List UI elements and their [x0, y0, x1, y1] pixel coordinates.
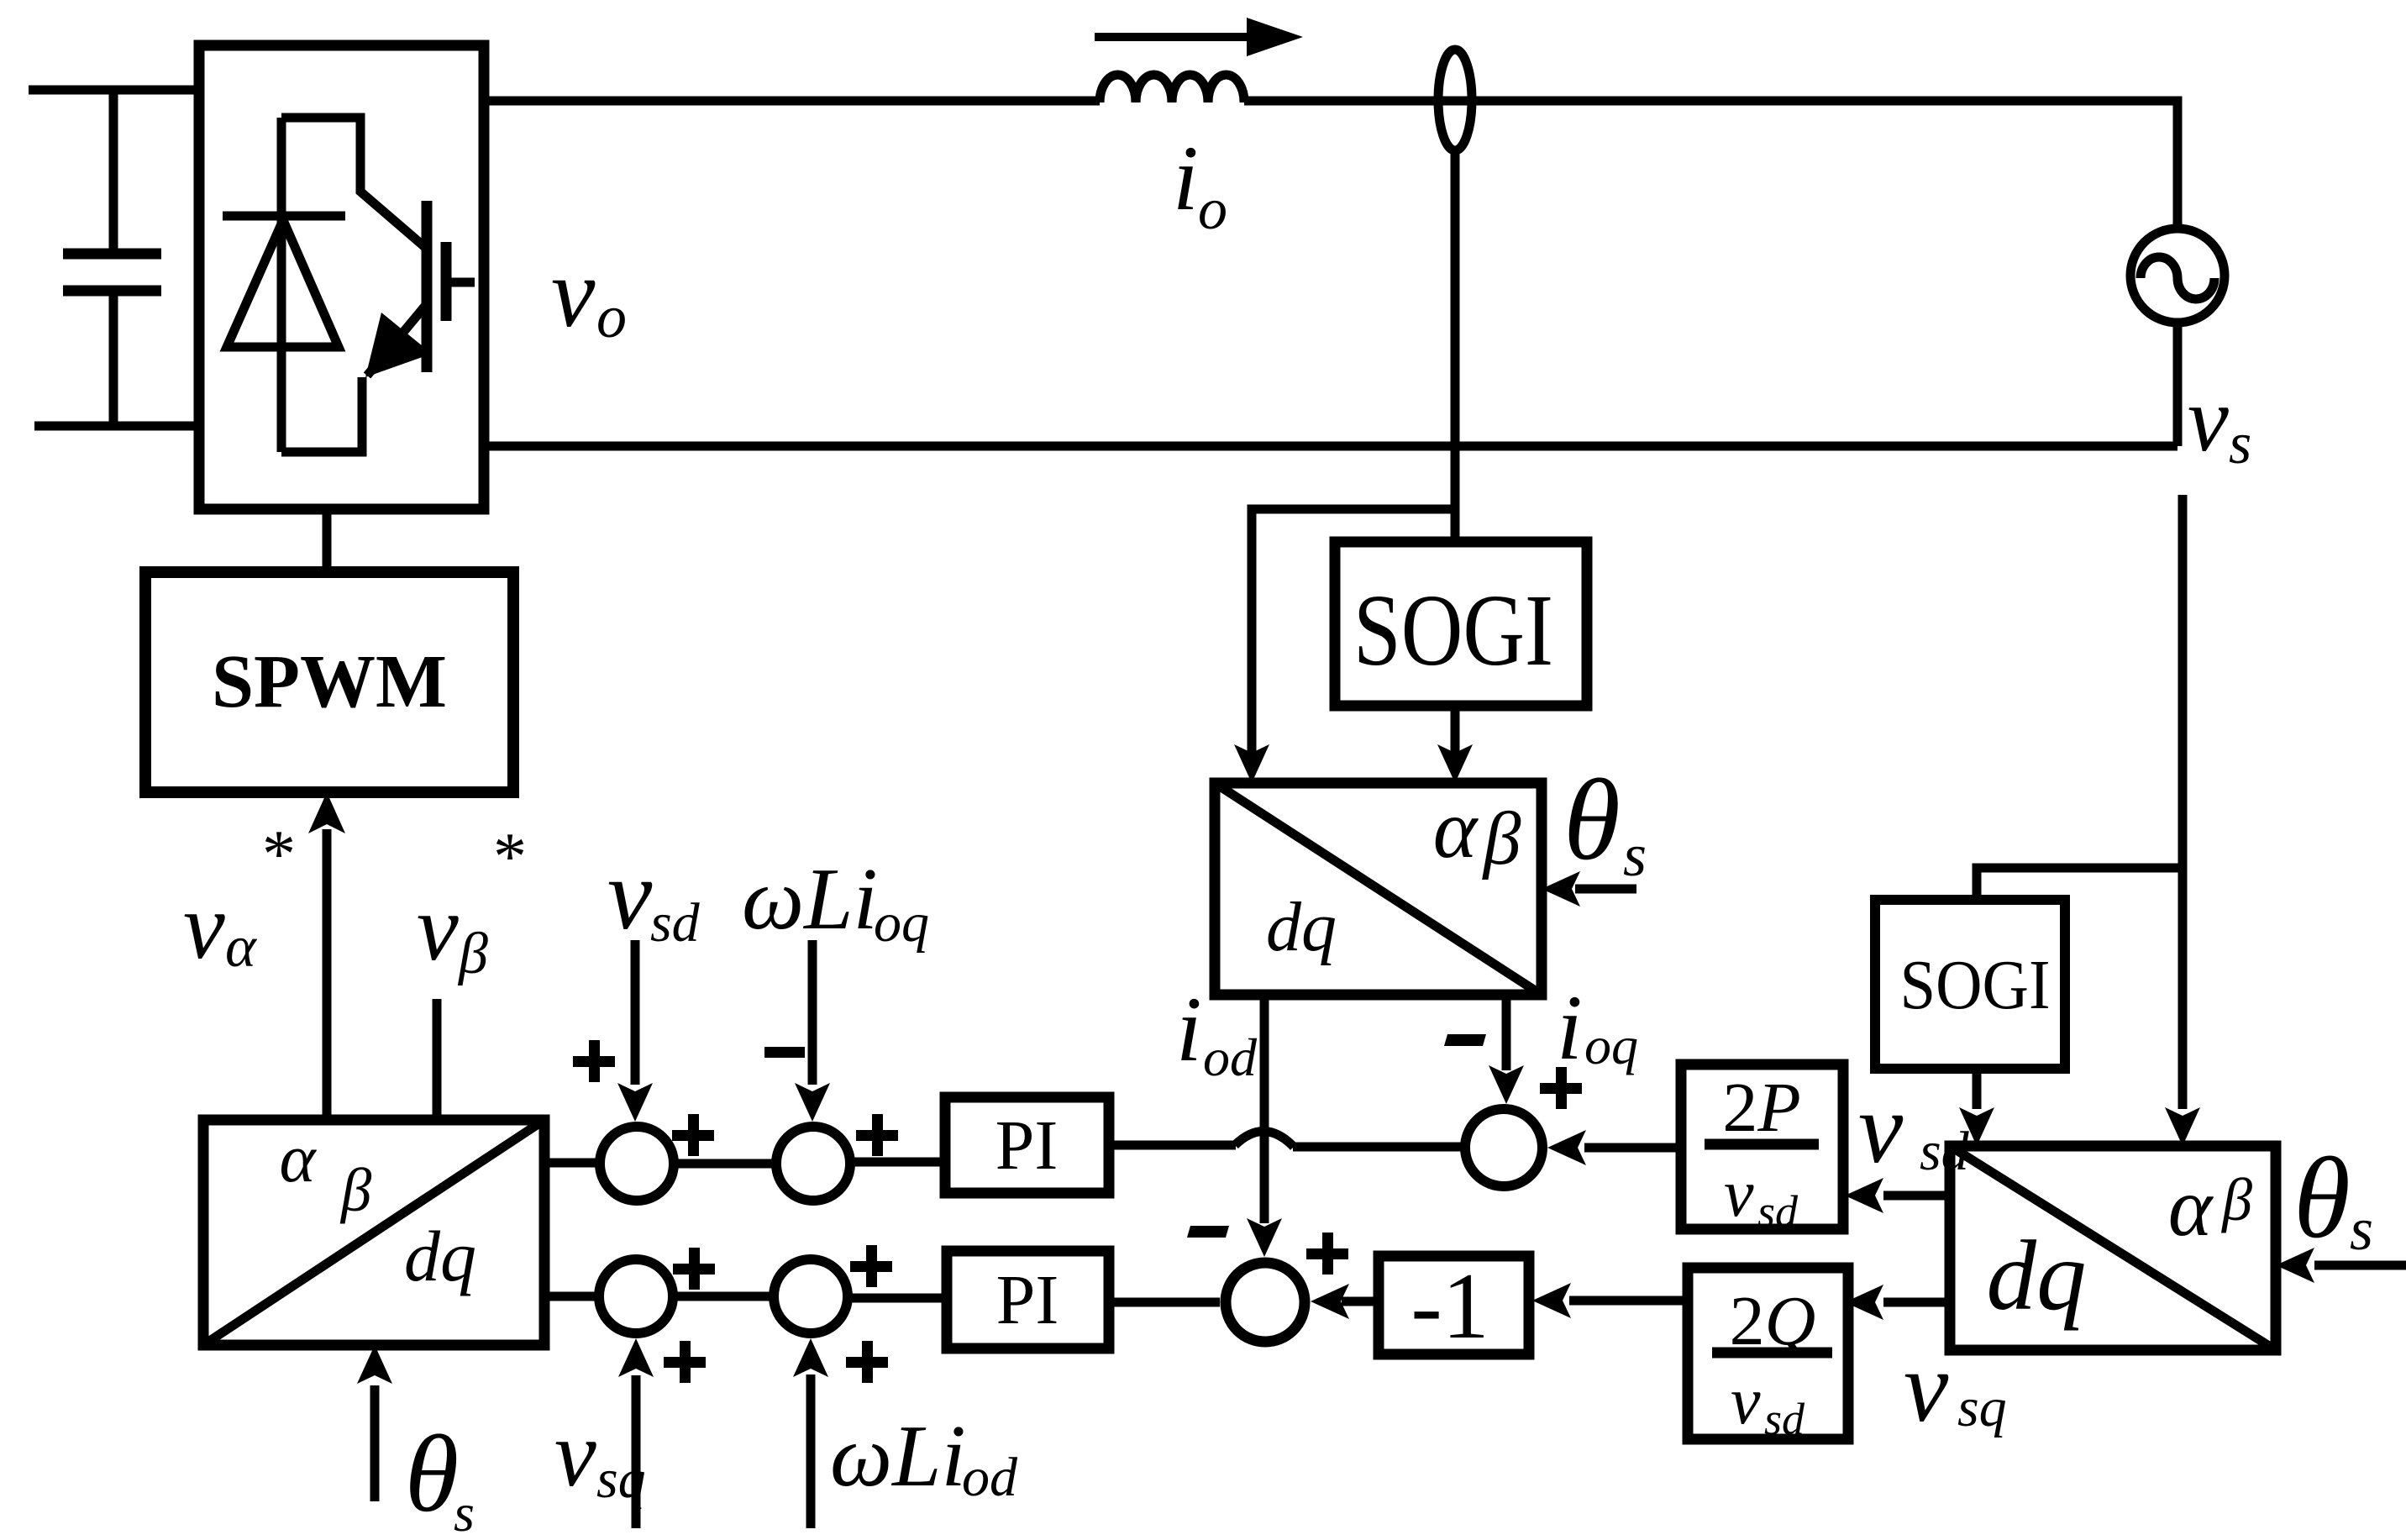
- wire left dq to sum1 row2: [544, 1292, 599, 1301]
- svg-text:o: o: [1198, 177, 1227, 242]
- wire SOGI2 output: [1973, 1069, 1982, 1109]
- wire v-beta* stub: [433, 999, 442, 1120]
- wire 2P box to right sum circle: [1584, 1143, 1681, 1153]
- label vsd above row1: [607, 838, 701, 954]
- wire sum2 row1 to PI1: [852, 1158, 945, 1167]
- left dq/abc transform block: [203, 1120, 544, 1345]
- wire DC bus top-left: [29, 86, 199, 95]
- svg-text:od: od: [962, 1447, 1018, 1508]
- minus sign wLioq input: [764, 1047, 805, 1058]
- wire vsd drop arrow: [631, 940, 640, 1085]
- svg-text:ωLi: ωLi: [830, 1406, 966, 1505]
- label wLiod: [830, 1406, 1018, 1508]
- summing junction right lower: [1226, 1263, 1305, 1342]
- wire AC output top: [484, 97, 1100, 106]
- wire left dq to sum1 row1: [544, 1159, 600, 1168]
- svg-text:β: β: [1482, 797, 1521, 880]
- svg-text:sq: sq: [596, 1448, 646, 1510]
- label theta-s mid dq: [1563, 755, 1647, 889]
- label vsq right: [1904, 1331, 2007, 1443]
- svg-text:v: v: [1858, 1072, 1904, 1184]
- summing junction row1 c1: [600, 1127, 674, 1201]
- svg-text:v: v: [1724, 1157, 1754, 1231]
- wire theta-s into middle dq: [1575, 885, 1636, 894]
- wire DC bus bottom-left: [34, 422, 199, 431]
- gain block 2P/vsd: [1681, 1064, 1843, 1237]
- arrowhead current io: [1247, 18, 1303, 56]
- label ioq: [1557, 976, 1638, 1079]
- svg-text:2P: 2P: [1722, 1069, 1800, 1147]
- svg-text:s: s: [454, 1483, 475, 1540]
- wire branch to io dq input: [1252, 509, 1455, 753]
- svg-text:SPWM: SPWM: [212, 640, 447, 723]
- svg-text:PI: PI: [995, 1106, 1059, 1185]
- SOGI block 1: [1335, 542, 1587, 706]
- svg-text:SOGI: SOGI: [1900, 946, 2051, 1024]
- svg-text:sd: sd: [650, 892, 701, 954]
- wire branch to SOGI2: [1977, 868, 2183, 900]
- svg-text:*: *: [493, 820, 527, 894]
- wire sum1-sum2 row1: [674, 1159, 776, 1169]
- plus sign row2 c2 right: [850, 1245, 892, 1287]
- arrowhead vsd into 2P: [1845, 1178, 1883, 1213]
- wire vsd out of right dq: [1883, 1191, 1950, 1201]
- svg-text:SOGI: SOGI: [1353, 574, 1553, 687]
- diode D (inside inverter): [223, 118, 345, 452]
- AC source Vs circle: [2130, 229, 2225, 323]
- arrowhead wLioq into sum: [795, 1083, 830, 1122]
- arrowhead into mid dq right: [1437, 744, 1473, 783]
- wire theta-s into left dq: [370, 1385, 380, 1501]
- svg-text:α: α: [1433, 782, 1479, 875]
- plus sign row1 c1 right: [672, 1114, 714, 1156]
- minus sign iod: [1187, 1226, 1229, 1238]
- arrowhead vsd into sum: [617, 1083, 653, 1122]
- label io: [1173, 127, 1227, 242]
- gain block -1: [1379, 1254, 1529, 1359]
- summing junction row1 c2: [776, 1127, 850, 1201]
- wire iod drop: [1260, 995, 1269, 1223]
- label wLioq: [742, 849, 929, 954]
- wire sum2 row2 to PI2: [848, 1294, 947, 1303]
- wire CT sense drop: [1451, 150, 1460, 542]
- label vsd right: [1858, 1072, 1970, 1184]
- svg-text:dq: dq: [404, 1216, 476, 1296]
- svg-text:sd: sd: [1920, 1121, 1970, 1182]
- svg-text:o: o: [596, 283, 627, 350]
- svg-text:v: v: [2188, 368, 2229, 470]
- plus sign lower right sum: [1306, 1233, 1348, 1275]
- svg-text:i: i: [1557, 976, 1583, 1079]
- arrowhead vsq into 2Q: [1845, 1285, 1883, 1320]
- arrowhead vs into right dq: [2165, 1107, 2200, 1146]
- wire sum1-sum2 row2: [673, 1292, 774, 1301]
- arrowhead ioq into upper right sum: [1489, 1065, 1524, 1104]
- wire hop over iod: [1235, 1131, 1294, 1147]
- arrowhead theta-s into left dq: [357, 1345, 392, 1384]
- summing junction right upper: [1465, 1109, 1542, 1186]
- PI block 1: [945, 1097, 1109, 1193]
- wire inverter to SPWM: [323, 509, 332, 572]
- capacitor C (DC link): [63, 90, 161, 426]
- svg-text:v: v: [1731, 1364, 1761, 1438]
- wire wLioq drop arrow: [808, 940, 817, 1085]
- plus sign row2 c1 below: [664, 1341, 706, 1383]
- label vs: [2188, 368, 2251, 476]
- plus sign vsd input: [573, 1040, 615, 1082]
- wire 2Q to -1: [1569, 1296, 1688, 1306]
- svg-text:θ: θ: [1563, 755, 1621, 884]
- svg-text:v: v: [554, 1402, 596, 1506]
- wire shaft current io: [1095, 33, 1254, 41]
- arrowhead -1 into lower sum: [1311, 1284, 1349, 1319]
- arrowhead SOGI2 out into right dq: [1959, 1107, 1994, 1146]
- arrowhead theta-s into mid dq: [1542, 871, 1580, 907]
- PI block 2: [947, 1251, 1109, 1348]
- plus sign row1 c2 right: [856, 1114, 898, 1156]
- svg-text:dq: dq: [1987, 1220, 2087, 1331]
- SOGI block 2: [1875, 900, 2065, 1069]
- svg-text:i: i: [1173, 127, 1199, 229]
- arrowhead 2P into right sum: [1547, 1130, 1586, 1165]
- svg-text:θ: θ: [405, 1413, 459, 1535]
- arrowhead iod into lower sum: [1247, 1218, 1282, 1257]
- inductor L: [1100, 75, 1244, 102]
- gain block 2Q/vsd: [1688, 1268, 1848, 1444]
- svg-text:θ: θ: [2293, 1133, 2351, 1262]
- svg-text:s: s: [2350, 1196, 2373, 1263]
- wire vsq up arrow: [632, 1375, 641, 1528]
- label theta-s left dq: [405, 1413, 475, 1540]
- svg-text:i: i: [1176, 978, 1202, 1080]
- svg-text:s: s: [1623, 822, 1647, 889]
- summing junction row2 c1: [599, 1259, 673, 1333]
- svg-text:s: s: [2229, 412, 2251, 476]
- label theta-s right dq: [2293, 1133, 2373, 1263]
- wire ioq drop: [1502, 995, 1511, 1070]
- svg-text:sq: sq: [1957, 1377, 2007, 1438]
- svg-text:α: α: [279, 1120, 317, 1196]
- wire vsq out of right dq: [1883, 1298, 1950, 1307]
- svg-text:α: α: [2168, 1160, 2214, 1254]
- wire SOGI1 output: [1451, 706, 1460, 753]
- wire wLiod up arrow: [806, 1374, 816, 1528]
- middle abc/dq transform block: [1215, 782, 1542, 995]
- plus sign right upper sum: [1540, 1067, 1582, 1109]
- SPWM block: [145, 572, 513, 792]
- svg-text:v: v: [551, 238, 596, 348]
- svg-text:sd: sd: [1757, 1186, 1799, 1237]
- svg-text:oq: oq: [874, 892, 929, 954]
- arrowhead valpha* into SPWM: [308, 792, 345, 833]
- wire -1 to lower right sum: [1342, 1297, 1379, 1306]
- wire PI2 to lower right sum: [1109, 1298, 1220, 1307]
- wire vs sense drop: [2178, 495, 2188, 1109]
- svg-text:v: v: [183, 875, 225, 979]
- wire theta-s into right dq: [2314, 1261, 2406, 1270]
- wire PI1 to hop: [1109, 1141, 1236, 1150]
- svg-text:ωLi: ωLi: [742, 849, 878, 948]
- label valpha*: [183, 817, 296, 980]
- wire source to bottom corner: [2173, 323, 2183, 446]
- arrowhead vsq up into sum: [618, 1338, 654, 1377]
- wire AC return bottom: [484, 442, 2177, 451]
- arrowhead 2Q into -1: [1532, 1283, 1571, 1318]
- svg-text:β: β: [2220, 1166, 2252, 1233]
- wire hop to right sum circle: [1293, 1143, 1465, 1152]
- svg-text:v: v: [1904, 1331, 1949, 1443]
- svg-text:sd: sd: [1764, 1394, 1805, 1444]
- plus sign row2 c2 below: [846, 1341, 888, 1383]
- svg-text:v: v: [607, 838, 653, 950]
- label iod: [1176, 978, 1258, 1087]
- svg-text:dq: dq: [1266, 888, 1337, 966]
- svg-text:α: α: [225, 915, 257, 980]
- current sensor CT ellipse: [1438, 50, 1472, 150]
- svg-text:v: v: [417, 876, 459, 980]
- arrowhead wLiod up into sum: [793, 1338, 828, 1377]
- svg-text:β: β: [339, 1156, 372, 1224]
- svg-text:PI: PI: [996, 1261, 1059, 1339]
- right abc/dq transform block: [1950, 1146, 2276, 1350]
- svg-text:-1: -1: [1411, 1254, 1489, 1359]
- AC source sine symbol: [2141, 257, 2214, 299]
- svg-text:β: β: [457, 922, 488, 986]
- arrowhead theta-s into right dq: [2276, 1248, 2314, 1283]
- arrowhead into mid dq left: [1234, 744, 1269, 783]
- label vsq below row2: [554, 1402, 646, 1510]
- svg-text:oq: oq: [1584, 1016, 1638, 1075]
- wire v-alpha* into SPWM: [323, 829, 332, 1120]
- summing junction row2 c2: [774, 1259, 848, 1333]
- svg-text:*: *: [262, 817, 296, 891]
- plus sign row2 c1 right: [673, 1248, 715, 1290]
- wire inductor to grid corner: [1244, 101, 2177, 231]
- label vbeta*: [417, 820, 527, 986]
- label vo: [551, 238, 627, 350]
- minus sign ioq: [1444, 1034, 1486, 1046]
- svg-text:od: od: [1203, 1028, 1258, 1087]
- inverter box: [199, 45, 484, 509]
- IGBT Q (inside inverter): [281, 118, 475, 452]
